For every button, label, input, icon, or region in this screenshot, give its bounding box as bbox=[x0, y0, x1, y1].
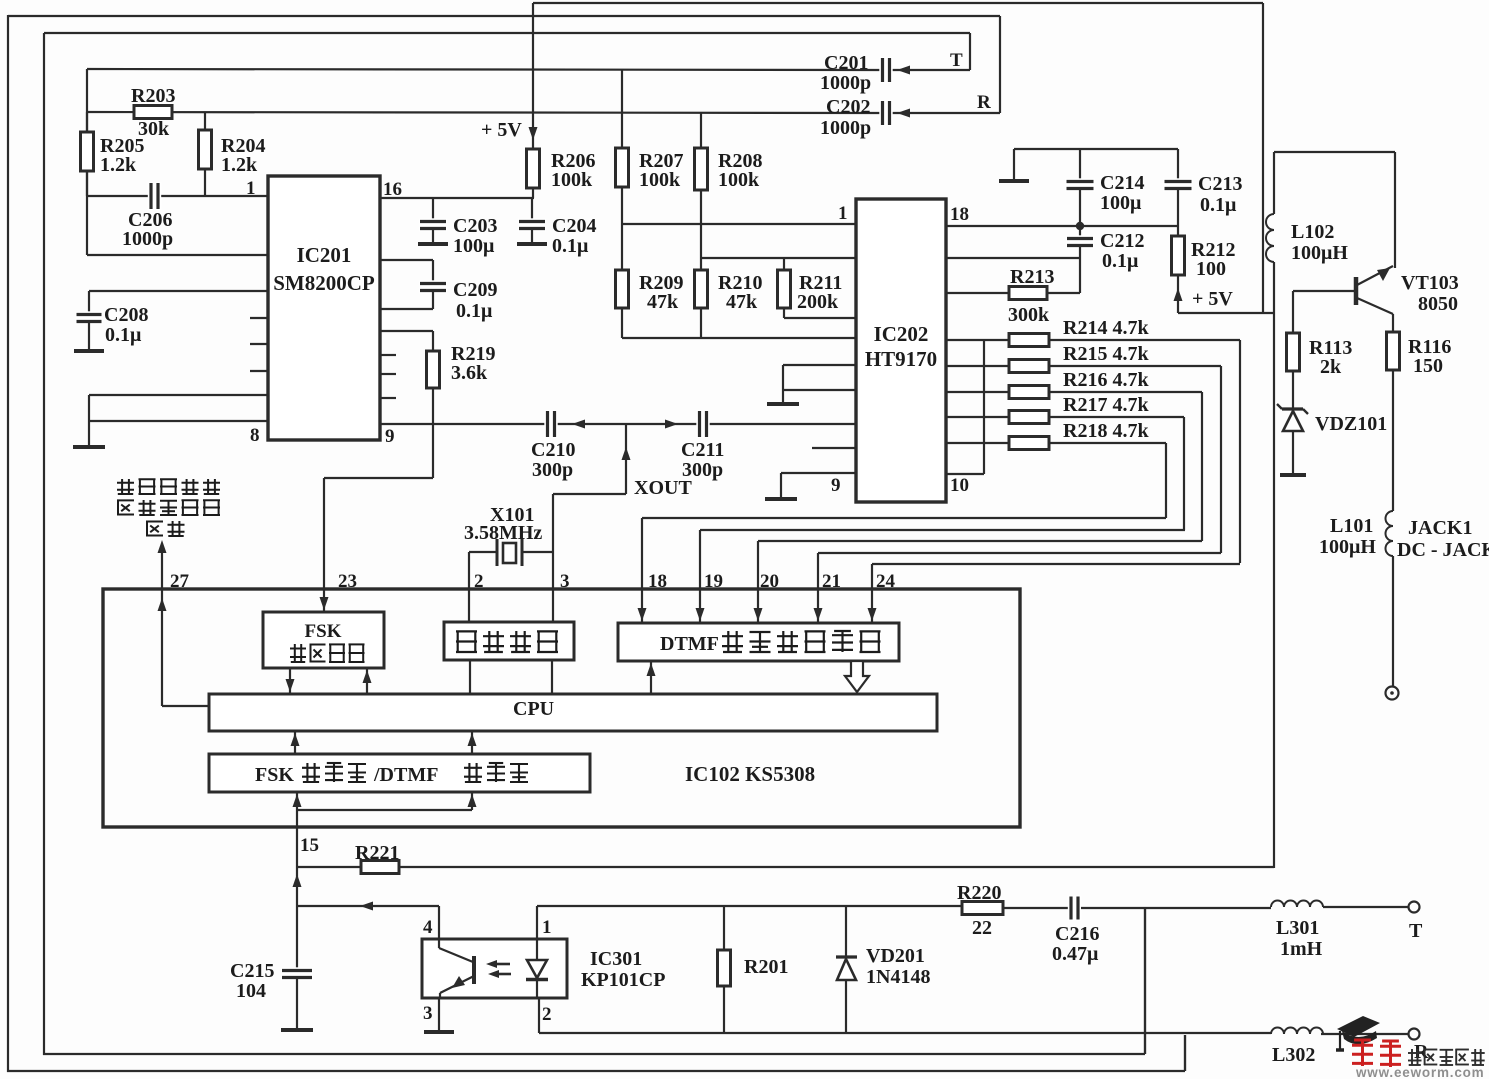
terminal DC-JACK circle bbox=[1386, 687, 1399, 700]
svg-text:9: 9 bbox=[831, 475, 841, 496]
arrow CPU to FSK up bbox=[366, 668, 368, 694]
svg-text:19: 19 bbox=[704, 571, 723, 592]
svg-text:VD201: VD201 bbox=[866, 945, 925, 967]
wire R219 to pin 23 FSK box bbox=[324, 477, 433, 479]
capacitor C209 bbox=[432, 260, 434, 283]
arrow before C211 pointing right bbox=[665, 420, 678, 429]
arrow pin15 up bbox=[293, 874, 302, 887]
svg-text:0.1μ: 0.1μ bbox=[456, 300, 493, 322]
wire IC202 pin to R218 bbox=[946, 442, 1009, 444]
svg-text:C201: C201 bbox=[824, 52, 868, 74]
arrow after C210 pointing left bbox=[572, 420, 585, 429]
wire +5V top bus bbox=[533, 2, 1263, 4]
arrow pin27 outer up bbox=[158, 540, 167, 553]
wire +5V bus left drop to R206 bbox=[532, 3, 534, 149]
svg-text:T: T bbox=[1409, 920, 1423, 942]
wire R116 to L101 bbox=[1392, 370, 1394, 511]
svg-text:3.58MHz: 3.58MHz bbox=[464, 522, 542, 544]
arrow pin27 inner up bbox=[158, 598, 167, 611]
arrow into pin15 node left bbox=[360, 902, 373, 911]
svg-text:100k: 100k bbox=[718, 169, 760, 191]
svg-text:2: 2 bbox=[542, 1004, 552, 1025]
wire bus line y=541 bbox=[758, 540, 1202, 542]
resistor R221 bbox=[297, 866, 361, 868]
svg-text:3: 3 bbox=[560, 571, 570, 592]
terminal T circle bbox=[1409, 902, 1420, 913]
svg-text:18: 18 bbox=[648, 571, 667, 592]
capacitor C215 bbox=[281, 967, 313, 980]
svg-text:R: R bbox=[977, 92, 991, 113]
capacitor C216 0.47u bbox=[1068, 896, 1081, 921]
svg-text:C208: C208 bbox=[104, 304, 148, 326]
inductor L102 100uH bbox=[1266, 214, 1274, 262]
wire R220 to C216 bbox=[1003, 907, 1068, 909]
opto light arrows bbox=[494, 963, 510, 966]
opto LED bbox=[536, 939, 538, 960]
arrow into FSKD left bbox=[293, 794, 302, 807]
wire L101 to DC jack terminal bbox=[1392, 556, 1394, 687]
svg-text:24: 24 bbox=[876, 571, 896, 592]
svg-text:27: 27 bbox=[170, 571, 190, 592]
svg-text:300k: 300k bbox=[1008, 304, 1050, 326]
wire IC201 right pin y=331 to R219 bbox=[380, 330, 433, 332]
wire IC202 pin9 to ground bbox=[781, 472, 856, 474]
svg-text:100μ: 100μ bbox=[1100, 192, 1142, 214]
wire +5V rail bbox=[1178, 312, 1274, 314]
crystal X101 bbox=[469, 551, 497, 553]
svg-text:VDZ101: VDZ101 bbox=[1315, 413, 1387, 435]
ground opto pin3 bbox=[424, 1030, 454, 1034]
watermark graduation cap logo bbox=[1336, 1016, 1380, 1050]
svg-text:200k: 200k bbox=[797, 291, 839, 313]
resistor R203 bbox=[134, 106, 172, 119]
svg-text:FSK: FSK bbox=[255, 764, 294, 786]
svg-text:FSK: FSK bbox=[305, 621, 342, 642]
svg-text:IC201: IC201 bbox=[297, 243, 352, 267]
svg-text:21: 21 bbox=[822, 571, 841, 592]
ground IC202 left bbox=[767, 402, 799, 406]
wire IC201 right pin y=260 C209 loop bbox=[380, 259, 433, 261]
DTMF display code box bbox=[618, 623, 899, 661]
svg-text:2: 2 bbox=[474, 571, 484, 592]
wire VT103 collector drop bbox=[1394, 152, 1396, 268]
resistor R212 bbox=[1172, 236, 1185, 275]
svg-text:0.1μ: 0.1μ bbox=[105, 324, 142, 346]
svg-text:C204: C204 bbox=[552, 215, 596, 237]
wire R-line riser to L302 line bbox=[1184, 1035, 1186, 1071]
svg-text:HT9170: HT9170 bbox=[865, 347, 937, 371]
wire opto pin1 riser bbox=[536, 906, 538, 939]
wire R-line right drop to C202 bbox=[999, 16, 1001, 113]
svg-text:www.eeworm.com: www.eeworm.com bbox=[1355, 1065, 1484, 1079]
svg-text:9: 9 bbox=[385, 426, 395, 447]
wire R209/R210 bottoms to IC202 bbox=[621, 308, 623, 338]
capacitor C202 bbox=[876, 112, 896, 114]
svg-text:3: 3 bbox=[423, 1003, 433, 1024]
arrow into FSKD right bbox=[468, 794, 477, 807]
ground top filter bbox=[1013, 149, 1015, 180]
svg-text:R217 4.7k: R217 4.7k bbox=[1063, 394, 1149, 416]
wire opto pin4 line bbox=[297, 905, 439, 907]
wire bias left line with R205 bbox=[86, 69, 88, 196]
resistor R204 bbox=[204, 112, 206, 196]
svg-text:C202: C202 bbox=[826, 96, 870, 118]
wire R221 to right riser bbox=[399, 866, 1274, 868]
svg-text:0.1μ: 0.1μ bbox=[1200, 194, 1237, 216]
svg-text:1mH: 1mH bbox=[1280, 938, 1323, 960]
arrow FSK to CPU down bbox=[289, 668, 291, 694]
wire T-line loop top bbox=[44, 32, 970, 34]
svg-text:C213: C213 bbox=[1198, 173, 1242, 195]
svg-text:L302: L302 bbox=[1272, 1044, 1315, 1066]
capacitor C211 bbox=[696, 410, 709, 438]
wire L302 to R terminal bbox=[1321, 1033, 1409, 1035]
resistor R116 150 bbox=[1387, 332, 1400, 370]
svg-text:100μ: 100μ bbox=[453, 235, 495, 257]
wire pin27 line bbox=[161, 545, 163, 706]
wire bus line y=553 bbox=[818, 552, 1221, 554]
capacitor C204 bbox=[531, 198, 533, 221]
transistor VT103 8050 bbox=[1354, 277, 1359, 305]
wire IC202 pin1 line bbox=[621, 187, 623, 224]
wire +5V bus right drop bbox=[1262, 3, 1264, 313]
svg-text:300p: 300p bbox=[532, 459, 573, 481]
wire bias top line to C201 left plate bbox=[87, 69, 876, 70]
terminal R circle bbox=[1409, 1029, 1420, 1040]
svg-text:1N4148: 1N4148 bbox=[866, 966, 930, 988]
arrow FSKD to CPU up left bbox=[294, 731, 296, 754]
wire IC201 left pin y=395 bbox=[89, 394, 268, 396]
svg-text:8: 8 bbox=[250, 425, 260, 446]
svg-text:150: 150 bbox=[1413, 355, 1443, 377]
FSK decode box bbox=[263, 612, 384, 668]
wire T riser junction bbox=[1144, 908, 1146, 1054]
svg-text:R220: R220 bbox=[957, 882, 1001, 904]
wire L302 line riser bbox=[1184, 1035, 1186, 1071]
arrow into C202 from R side bbox=[896, 112, 1000, 114]
inductor L302 bbox=[1271, 1028, 1323, 1034]
wire R-line outer loop top bbox=[8, 15, 1000, 17]
svg-text:R218 4.7k: R218 4.7k bbox=[1063, 420, 1149, 442]
svg-text:1000p: 1000p bbox=[820, 72, 871, 94]
wire C216 to L301 bbox=[1081, 907, 1271, 909]
svg-text:CPU: CPU bbox=[513, 698, 554, 720]
resistor R207 bbox=[616, 148, 629, 187]
wire IC201 left pin y=421 pin8 bbox=[89, 420, 268, 422]
ground C208 bbox=[74, 349, 104, 353]
svg-text:1: 1 bbox=[838, 203, 848, 224]
FSK/DTMF recognize box bbox=[209, 754, 590, 792]
svg-text:T: T bbox=[950, 50, 963, 71]
svg-text:/DTMF: /DTMF bbox=[373, 764, 438, 786]
capacitor C208 bbox=[88, 291, 90, 314]
svg-text:IC202: IC202 bbox=[874, 322, 929, 346]
svg-text:8050: 8050 bbox=[1418, 293, 1458, 315]
wire T-side bottom line bbox=[537, 905, 962, 907]
wire R113 to VDZ101 bbox=[1292, 371, 1294, 409]
svg-text:C212: C212 bbox=[1100, 230, 1144, 252]
svg-text:KP101CP: KP101CP bbox=[581, 969, 665, 991]
resistor R201 bbox=[723, 906, 725, 950]
wire L102 vertical bbox=[1273, 152, 1275, 214]
svg-text:1.2k: 1.2k bbox=[100, 154, 137, 176]
wire IC201 pin1 line bbox=[87, 195, 268, 197]
IC202 HT9170 bbox=[856, 199, 946, 502]
wire XOUT riser bbox=[625, 424, 627, 494]
arrow CPU to DTMF up bbox=[650, 661, 652, 694]
arrow into C201 from T side bbox=[896, 69, 970, 71]
wire L102 branch top bbox=[1274, 151, 1395, 153]
svg-text:0.47μ: 0.47μ bbox=[1052, 943, 1099, 965]
capacitor C212 bbox=[1079, 226, 1081, 238]
ground pin9 IC202 bbox=[765, 497, 797, 501]
wire bus drop x=872 into DTMF box bbox=[871, 564, 873, 622]
resistor R218 4.7k bbox=[1009, 437, 1049, 450]
capacitor C206 bbox=[148, 182, 161, 210]
ground VDZ101 bbox=[1280, 473, 1306, 477]
wire clock box to CPU bbox=[469, 660, 471, 694]
wire opto pin3 to ground bbox=[438, 998, 440, 1031]
svg-text:1000p: 1000p bbox=[122, 228, 173, 250]
resistor R219 bbox=[432, 331, 434, 351]
svg-text:+ 5V: + 5V bbox=[1192, 288, 1233, 310]
resistor R208 bbox=[695, 148, 708, 190]
resistor R220 22 bbox=[962, 902, 1003, 915]
svg-text:R201: R201 bbox=[744, 956, 788, 978]
wire T-line riser to C216/L301 line bbox=[1144, 907, 1146, 1054]
opto phototransistor bbox=[472, 956, 476, 984]
wire top filter line bbox=[1014, 148, 1178, 150]
svg-text:18: 18 bbox=[950, 204, 969, 225]
svg-text:1.2k: 1.2k bbox=[221, 154, 258, 176]
arrow XOUT up bbox=[622, 447, 631, 460]
svg-text:C203: C203 bbox=[453, 215, 497, 237]
wire IC201 left pin y=255 from bias line bbox=[86, 196, 88, 255]
wire bus line y=530 bbox=[700, 529, 1185, 531]
svg-text:R216 4.7k: R216 4.7k bbox=[1063, 369, 1149, 391]
capacitor C201 bbox=[876, 69, 896, 71]
wire R207 column top bbox=[621, 69, 623, 148]
wire IC202 ground pins pair bbox=[783, 364, 856, 366]
hollow arrow DTMF to CPU bbox=[845, 661, 869, 692]
svg-text:3.6k: 3.6k bbox=[451, 362, 488, 384]
resistor R205 bbox=[86, 112, 88, 196]
svg-text:DC - JACK: DC - JACK bbox=[1397, 539, 1489, 561]
wire IC201 pin16 line bbox=[380, 197, 534, 199]
svg-text:100: 100 bbox=[1196, 258, 1226, 280]
svg-text:22: 22 bbox=[972, 917, 992, 939]
svg-text:R214 4.7k: R214 4.7k bbox=[1063, 317, 1149, 339]
svg-text:R203: R203 bbox=[131, 85, 175, 107]
clock oscillator box bbox=[444, 622, 574, 660]
wire base to R113 bbox=[1292, 291, 1294, 333]
wire IC202 pin to R215 bbox=[946, 365, 1009, 367]
label out-to-transmitter text bbox=[121, 479, 123, 494]
optocoupler IC301 KP101CP bbox=[422, 939, 567, 998]
wire bus drop x=818 into DTMF box bbox=[817, 553, 819, 622]
resistor R211 bbox=[783, 258, 785, 270]
svg-text:100k: 100k bbox=[639, 169, 681, 191]
wire R-side bottom line bbox=[539, 1032, 1271, 1034]
svg-text:104: 104 bbox=[236, 980, 266, 1002]
resistor R213 bbox=[1009, 287, 1047, 300]
watermark chongchong red text bbox=[1361, 1040, 1364, 1066]
svg-text:IC102 KS5308: IC102 KS5308 bbox=[685, 762, 815, 786]
wire IC202 pin to R216 bbox=[946, 391, 1009, 393]
resistor R214 4.7k bbox=[1009, 334, 1049, 347]
wire R218 to bus riser bbox=[1049, 442, 1166, 444]
svg-text:VT103: VT103 bbox=[1401, 272, 1459, 294]
wire IC201 left pin y=291 to C208 bbox=[89, 290, 268, 292]
svg-text:R213: R213 bbox=[1010, 266, 1054, 288]
svg-text:L102: L102 bbox=[1291, 221, 1334, 243]
wire crystal pin3 drop bbox=[552, 494, 554, 622]
svg-text:16: 16 bbox=[383, 179, 402, 200]
wire FSKD bottom loop bbox=[296, 792, 298, 827]
svg-text:10: 10 bbox=[950, 475, 969, 496]
wire bus line y=564 bbox=[872, 563, 1240, 565]
resistor R206 bbox=[532, 149, 534, 198]
svg-text:SM8200CP: SM8200CP bbox=[273, 271, 375, 295]
ground C215 bbox=[281, 1028, 313, 1032]
svg-text:1: 1 bbox=[246, 178, 256, 199]
CPU box bbox=[209, 694, 937, 731]
svg-text:4: 4 bbox=[423, 917, 433, 938]
wire IC202 second line y=258 bbox=[701, 257, 856, 259]
svg-text:C214: C214 bbox=[1100, 172, 1144, 194]
wire XOUT horizontal bbox=[553, 493, 626, 495]
wire crystal pin2 drop bbox=[468, 552, 470, 622]
svg-text:47k: 47k bbox=[647, 291, 679, 313]
IC201 right pin stubs bbox=[380, 354, 396, 356]
wire IC202 pin to R217 bbox=[946, 416, 1009, 418]
wire R-line outer loop bottom bbox=[7, 1070, 1185, 1072]
svg-text:IC301: IC301 bbox=[590, 948, 642, 970]
inductor L101 100uH bbox=[1386, 511, 1394, 556]
svg-text:R221: R221 bbox=[355, 842, 399, 864]
svg-text:1000p: 1000p bbox=[820, 117, 871, 139]
wire pin10 line bbox=[946, 473, 984, 475]
wire IC202 pin18 line bbox=[946, 225, 1178, 227]
svg-text:100μH: 100μH bbox=[1291, 242, 1348, 264]
svg-text:100μH: 100μH bbox=[1319, 536, 1376, 558]
IC202 left stub bbox=[812, 447, 856, 449]
svg-text:23: 23 bbox=[338, 571, 357, 592]
wire IC201 pin9 to IC202 line bbox=[380, 423, 856, 425]
wire bus drop x=758 into DTMF box bbox=[757, 541, 759, 622]
wire T-line loop bottom bbox=[43, 1053, 1145, 1055]
svg-text:C210: C210 bbox=[531, 439, 575, 461]
wire IC202 y=258 right line bbox=[946, 257, 1080, 259]
arrow +5V down at R206 bbox=[529, 127, 538, 140]
wire pin15 column bbox=[296, 827, 298, 970]
watermark site name text bbox=[1411, 1049, 1413, 1065]
arrow pin23 down bbox=[320, 597, 329, 610]
wire T-line right drop to C201 bbox=[969, 33, 971, 70]
wire T-line loop left bbox=[43, 33, 45, 1055]
svg-text:100k: 100k bbox=[551, 169, 593, 191]
wire VT103 emitter to R116 bbox=[1392, 314, 1394, 332]
arrow FSKD to CPU up right bbox=[471, 731, 473, 754]
resistor R210 bbox=[700, 190, 702, 270]
junction dot pin18/C214 bbox=[1076, 222, 1084, 230]
wire R-line outer loop left bbox=[7, 15, 9, 1072]
svg-text:DTMF: DTMF bbox=[660, 633, 719, 655]
svg-text:C211: C211 bbox=[681, 439, 724, 461]
svg-text:20: 20 bbox=[760, 571, 779, 592]
wire R216 to bus riser bbox=[1049, 391, 1202, 393]
IC201 SM8200CP bbox=[268, 176, 380, 440]
wire bus drop x=700 into DTMF box bbox=[699, 530, 701, 622]
arrow +5V up bbox=[1174, 288, 1183, 301]
svg-text:XOUT: XOUT bbox=[634, 477, 692, 499]
wire R212 to +5V rail bbox=[1177, 275, 1179, 313]
wire bus line y=518 bbox=[642, 517, 1166, 519]
wire L301 to T terminal bbox=[1323, 906, 1409, 908]
wire opto pin4 drop bbox=[438, 906, 440, 939]
svg-text:L101: L101 bbox=[1330, 515, 1373, 537]
wire bus drop x=642 into DTMF box bbox=[641, 518, 643, 622]
diode VD201 1N4148 bbox=[845, 906, 847, 957]
resistor R215 4.7k bbox=[1009, 360, 1049, 373]
inductor L301 1mH bbox=[1271, 901, 1323, 907]
svg-text:L301: L301 bbox=[1276, 917, 1319, 939]
ground pin8 bbox=[73, 445, 105, 449]
resistor R216 4.7k bbox=[1009, 386, 1049, 399]
IC102 KS5308 block bbox=[103, 589, 1020, 827]
wire R208 column top bbox=[700, 112, 702, 148]
svg-text:C215: C215 bbox=[230, 960, 274, 982]
svg-text:R215 4.7k: R215 4.7k bbox=[1063, 343, 1149, 365]
wire R215 to bus riser bbox=[1049, 365, 1221, 367]
wire IC202 pin to R214 bbox=[946, 339, 1009, 341]
svg-text:C216: C216 bbox=[1055, 923, 1099, 945]
svg-text:JACK1: JACK1 bbox=[1408, 517, 1472, 539]
wire R203/C202 line y=112 bbox=[87, 112, 876, 113]
svg-text:C209: C209 bbox=[453, 279, 497, 301]
resistor R217 4.7k bbox=[1009, 411, 1049, 424]
svg-text:0.1μ: 0.1μ bbox=[552, 235, 589, 257]
svg-text:1: 1 bbox=[542, 917, 552, 938]
capacitor C210 bbox=[544, 410, 557, 438]
resistor R209 bbox=[621, 224, 623, 270]
resistor R113 2k bbox=[1287, 333, 1300, 371]
svg-text:15: 15 bbox=[300, 835, 319, 856]
svg-text:+ 5V: + 5V bbox=[481, 119, 522, 141]
wire opto pin2 drop bbox=[538, 998, 540, 1033]
svg-text:47k: 47k bbox=[726, 291, 758, 313]
wire R217 to bus riser bbox=[1049, 416, 1184, 418]
capacitor C203 bbox=[432, 198, 434, 221]
zener diode VDZ101 bbox=[1282, 407, 1303, 410]
IC201 left pin stubs bbox=[250, 317, 268, 319]
svg-text:2k: 2k bbox=[1320, 356, 1342, 378]
svg-text:0.1μ: 0.1μ bbox=[1102, 250, 1139, 272]
capacitor C214 bbox=[1079, 149, 1081, 181]
capacitor C213 bbox=[1177, 149, 1179, 181]
wire R214 to bus riser bbox=[1049, 339, 1240, 341]
wire R213 line bbox=[946, 292, 1009, 294]
